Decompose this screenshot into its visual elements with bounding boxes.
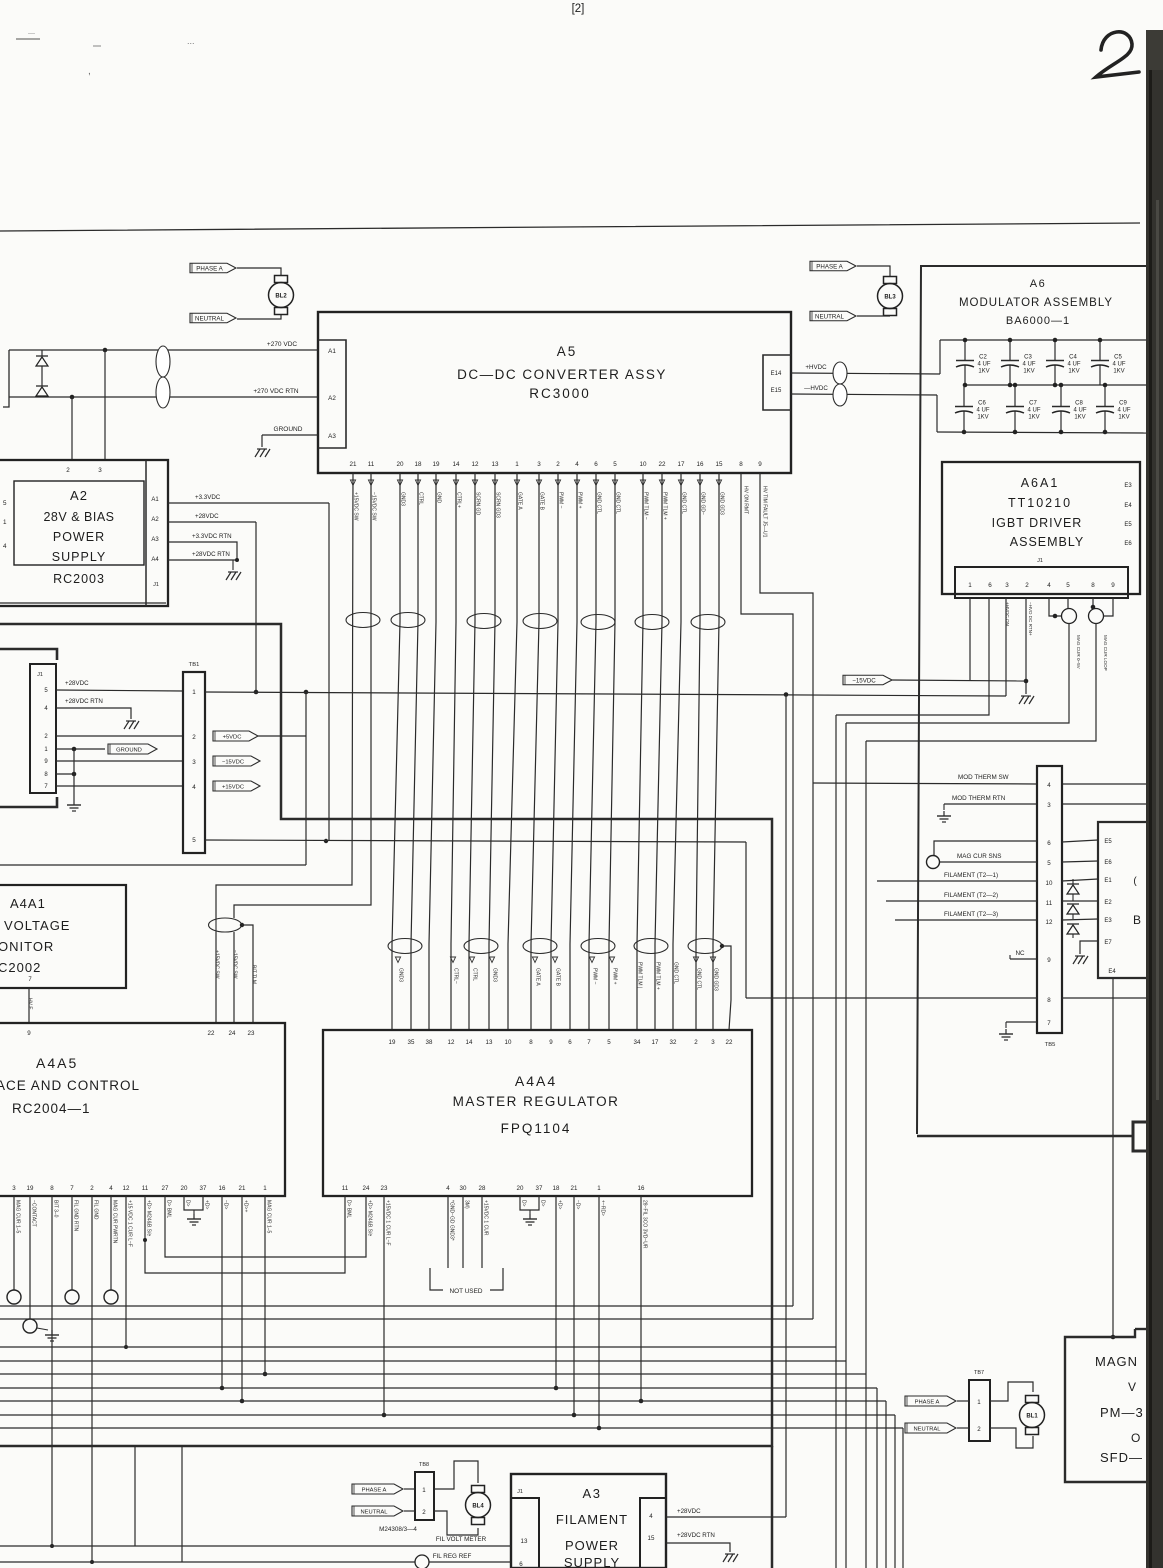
- wire +270 VDC: [9, 341, 318, 350]
- svg-text:PWM +: PWM +: [612, 968, 618, 985]
- svg-text:A2: A2: [70, 488, 88, 503]
- svg-text:+15 VDC 1 CUR L−F: +15 VDC 1 CUR L−F: [127, 1200, 133, 1247]
- svg-text:28: 28: [479, 1185, 486, 1192]
- svg-text:7: 7: [587, 1039, 591, 1046]
- wire J1-8 stub: [56, 772, 76, 777]
- svg-text:−15VDC: −15VDC: [852, 677, 876, 684]
- svg-text:23: 23: [381, 1185, 388, 1192]
- svg-text:+5VDC: +5VDC: [223, 734, 242, 740]
- svg-text:19: 19: [389, 1039, 396, 1046]
- label -HVDC RTN (rot): [1028, 602, 1033, 636]
- svg-text:4 UF: 4 UF: [976, 408, 989, 414]
- wire TB5-5 to E6: [1062, 861, 1098, 862]
- capacitor C9: [1096, 383, 1131, 435]
- svg-text:1KV: 1KV: [1023, 369, 1034, 375]
- svg-text:1KV: 1KV: [1074, 415, 1085, 421]
- svg-text:PHASE A: PHASE A: [362, 1487, 387, 1493]
- wire TB5-8 left: [746, 997, 1037, 999]
- svg-text:15: 15: [715, 461, 723, 468]
- connector circle MAG CUR: [927, 856, 940, 869]
- wire thick A6 bottom: [917, 1135, 1133, 1138]
- ground (E7): [1073, 956, 1088, 964]
- wire to A4A5 pin22: [215, 918, 217, 1023]
- svg-text:A6A1: A6A1: [1021, 476, 1060, 490]
- svg-text:7: 7: [70, 1185, 74, 1192]
- svg-text:16: 16: [219, 1185, 226, 1192]
- wire +5VDC tail: [258, 690, 308, 865]
- svg-text:,: ,: [88, 66, 91, 77]
- diode CR5: [1067, 924, 1079, 938]
- ground (J1-1): [67, 800, 81, 811]
- wire A4A4 pin16 drop: [639, 1196, 644, 1403]
- svg-text:1: 1: [515, 461, 519, 468]
- ground (A4A4 20/37): [523, 1214, 537, 1225]
- capacitor C2: [956, 338, 991, 388]
- svg-text:35: 35: [408, 1039, 415, 1046]
- svg-text:BA6000—1: BA6000—1: [1006, 315, 1070, 327]
- A4A4 top pins: [389, 1039, 733, 1046]
- svg-text:12: 12: [123, 1185, 130, 1192]
- svg-text:21: 21: [349, 461, 357, 468]
- svg-text:5: 5: [613, 461, 617, 468]
- label +HVDC ON (rot): [1005, 602, 1010, 626]
- svg-text:+28VDC: +28VDC: [195, 513, 219, 520]
- svg-text:A2: A2: [328, 395, 336, 402]
- wire A6A1 J1-1: [969, 598, 971, 681]
- svg-text:D>: D>: [540, 1200, 546, 1207]
- connector bracket magnetron: [1133, 1122, 1146, 1151]
- svg-text:14: 14: [466, 1039, 473, 1046]
- svg-text:+15VDC 1 CUR L−F: +15VDC 1 CUR L−F: [385, 1200, 391, 1246]
- diode CR3: [1067, 879, 1079, 901]
- svg-text:A3: A3: [328, 433, 336, 440]
- label MAG CUR 0-5V (rot): [1076, 635, 1081, 670]
- blower BL4: [466, 1486, 491, 1525]
- diode CR4: [1067, 904, 1079, 919]
- svg-text:30: 30: [460, 1185, 467, 1192]
- wire TB7-1 to BL1: [990, 1382, 1033, 1401]
- wire A4A5 pin8 drop: [50, 1196, 54, 1548]
- svg-text:5: 5: [3, 500, 7, 507]
- svg-text:E1: E1: [1104, 878, 1112, 884]
- wire A4A5 pin12 drop: [124, 1196, 128, 1349]
- wire GROUND to A5 A3: [262, 426, 318, 447]
- wire A4A4 pin21 drop: [572, 1196, 577, 1417]
- block A6 modulator assembly outline: [917, 266, 1146, 1134]
- blower BL2: [269, 276, 294, 315]
- svg-text:E2: E2: [1104, 900, 1112, 906]
- svg-text:PHASE A: PHASE A: [196, 265, 223, 272]
- svg-text:23: 23: [248, 1030, 255, 1037]
- wire TB5-5 MAG CUR SNS: [940, 853, 1037, 862]
- svg-text:C3: C3: [1024, 355, 1032, 361]
- A4A4 bottom labels: [346, 1200, 648, 1249]
- svg-text:MAG CUR PWRTN: MAG CUR PWRTN: [112, 1200, 118, 1244]
- wire e6 tap to pin22: [722, 946, 731, 1030]
- wire HVDC+ bus: [940, 340, 1146, 374]
- wire NEUTRAL TB8: [404, 1510, 415, 1512]
- svg-text:20: 20: [517, 1185, 524, 1192]
- svg-text:3: 3: [1005, 582, 1009, 589]
- wire +28VDC feed to A3: [785, 695, 787, 1518]
- svg-text:1: 1: [968, 582, 972, 589]
- page number [2]: [572, 3, 585, 15]
- connector J1 chassis bracket: [0, 649, 57, 807]
- svg-text:2: 2: [977, 1426, 981, 1433]
- wire A6A1 J1-2: [1024, 598, 1029, 694]
- svg-text:−15VDC: −15VDC: [222, 759, 244, 765]
- svg-text:C8: C8: [1075, 401, 1083, 407]
- svg-text:C2: C2: [979, 355, 987, 361]
- svg-text:TB7: TB7: [974, 1370, 984, 1376]
- flag +5VDC: [213, 731, 258, 741]
- svg-text:*GND−GD GND3*: *GND−GD GND3*: [449, 1200, 455, 1241]
- wire shield1 drop: [845, 723, 847, 1568]
- svg-text:NEUTRAL: NEUTRAL: [195, 315, 224, 322]
- svg-text:4: 4: [575, 461, 579, 468]
- wire J1-9: [56, 760, 183, 762]
- svg-text:+D>+: +D>+: [243, 1200, 249, 1212]
- twisted pair HVDC: [833, 362, 847, 406]
- svg-text:HV ON RMT: HV ON RMT: [743, 486, 749, 514]
- svg-text:TB5: TB5: [1045, 1042, 1056, 1048]
- svg-text:+28VDC RTN: +28VDC RTN: [65, 698, 103, 705]
- svg-text:TT10210: TT10210: [1008, 496, 1072, 510]
- svg-text:GND3: GND3: [398, 968, 404, 982]
- wire TB5-10 to E1: [1062, 879, 1098, 881]
- svg-text:20: 20: [181, 1185, 188, 1192]
- terminal block TB8: [415, 1462, 434, 1520]
- svg-text:1: 1: [3, 519, 7, 526]
- svg-text:1KV: 1KV: [978, 369, 989, 375]
- svg-text:4 UF: 4 UF: [977, 362, 990, 368]
- block A4A1 voltage monitor: [0, 885, 126, 988]
- wire A4A4 pins20/37 gnd: [520, 1196, 539, 1214]
- svg-text:B: B: [1133, 913, 1141, 927]
- svg-text:FPQ1104: FPQ1104: [501, 1121, 572, 1136]
- wire J1-7: [56, 785, 183, 787]
- svg-text:J1: J1: [517, 1489, 523, 1495]
- flag GROUND: [108, 744, 157, 754]
- svg-text:4 UF: 4 UF: [1027, 408, 1040, 414]
- shield ring J1-4/5: [1062, 609, 1077, 624]
- wire bus 1306: [0, 1305, 793, 1307]
- svg-text:+28VDC RTN: +28VDC RTN: [677, 1532, 715, 1539]
- svg-text:C4: C4: [1069, 355, 1077, 361]
- svg-text:NEUTRAL: NEUTRAL: [360, 1509, 388, 1515]
- svg-text:MAG CUR 1–5: MAG CUR 1–5: [266, 1200, 272, 1234]
- svg-text:GND GD3: GND GD3: [713, 968, 719, 991]
- wire TB5-11 FILAMENT T2-2: [886, 892, 1037, 901]
- svg-text:GND3: GND3: [492, 968, 498, 982]
- wire +28VDC drop: [254, 522, 259, 694]
- connector circle FIL REG: [415, 1555, 429, 1568]
- wire MOD THERM RTN: [944, 795, 1037, 810]
- wire -HVDC E15: [791, 385, 937, 395]
- svg-text:3: 3: [537, 461, 541, 468]
- connector A3 right strip: [640, 1498, 666, 1568]
- svg-text:NC: NC: [1015, 950, 1025, 957]
- svg-text:A3: A3: [583, 1486, 602, 1501]
- svg-text:+3.3VDC: +3.3VDC: [195, 494, 221, 501]
- svg-text:6: 6: [568, 1039, 572, 1046]
- label M24308/3-4: [379, 1526, 417, 1533]
- svg-text:13: 13: [521, 1538, 528, 1545]
- wire A5 pin8 route: [741, 473, 793, 1306]
- svg-text:A5: A5: [557, 344, 578, 359]
- svg-text:11: 11: [342, 1185, 349, 1192]
- wire TB8-1 to BL4: [434, 1461, 478, 1489]
- wire PHASE A TB7: [957, 1400, 969, 1402]
- flag NEUTRAL (TB8): [352, 1506, 403, 1516]
- svg-text:2: 2: [556, 461, 560, 468]
- svg-text:NOT USED: NOT USED: [450, 1288, 483, 1295]
- svg-text:16: 16: [638, 1185, 645, 1192]
- top border line: [0, 223, 1140, 231]
- svg-text:+D> M24&B.S/e: +D> M24&B.S/e: [367, 1200, 373, 1236]
- svg-text:E15: E15: [771, 388, 782, 394]
- svg-text:MAG CUR SNS: MAG CUR SNS: [957, 853, 1001, 860]
- svg-text:[2]: [2]: [572, 3, 585, 15]
- svg-text:+28VDC: +28VDC: [65, 680, 89, 687]
- svg-text:9: 9: [1111, 582, 1115, 589]
- capacitor C5: [1091, 338, 1126, 385]
- ground (A3 RTN): [723, 1554, 738, 1562]
- wire A6A1-6 drop: [835, 715, 837, 1568]
- svg-text:38: 38: [426, 1039, 433, 1046]
- wire A4A5 pin4 drop: [110, 1196, 112, 1290]
- svg-text:J1: J1: [153, 582, 159, 588]
- svg-text:28−FIL 3CO 3VD−UR: 28−FIL 3CO 3VD−UR: [642, 1200, 648, 1249]
- label MAG CUR LOOP (rot): [1103, 635, 1108, 671]
- svg-text:V: V: [1128, 1380, 1136, 1394]
- node RTN junction: [70, 395, 75, 400]
- wire A5 pin9 route: [760, 473, 813, 1319]
- svg-text:37: 37: [200, 1185, 207, 1192]
- svg-text:32: 32: [670, 1039, 677, 1046]
- ground (A6A1 J1-2): [1019, 696, 1034, 704]
- flag PHASE A (TB8): [352, 1484, 403, 1494]
- wire cap mid bus: [964, 384, 1146, 386]
- svg-text:A4: A4: [151, 557, 159, 563]
- wire A4A4 pin18 drop: [554, 1196, 559, 1390]
- wire bus 1401: [0, 1388, 886, 1568]
- svg-text:17: 17: [652, 1039, 659, 1046]
- block A2 power supply: [0, 460, 168, 606]
- wire TB5-8 right: [1062, 997, 1146, 999]
- wire A4A1 pin7: [28, 988, 30, 1023]
- wire stub y603: [0, 602, 166, 604]
- wire A6A1 J1-6: [836, 598, 989, 715]
- svg-text:GND CTL: GND CTL: [673, 962, 679, 984]
- wire RTN to A2 pin 2: [71, 397, 73, 460]
- svg-text:3: 3: [98, 467, 102, 474]
- svg-text:RC2003: RC2003: [53, 572, 105, 586]
- wire A4A5 pins20/37 gnd: [184, 1196, 203, 1214]
- svg-text:A6: A6: [1030, 278, 1046, 290]
- wire NEUTRAL to BL2: [237, 315, 281, 319]
- scan smudges top-left: [16, 30, 195, 77]
- wire -15VDC to J1-2: [892, 680, 1026, 681]
- wire A3 +28VDC: [666, 1508, 786, 1517]
- svg-text:D>: D>: [185, 1200, 191, 1207]
- svg-text:GND CTL: GND CTL: [696, 968, 702, 990]
- wire FIL VOLT METER: [0, 1536, 511, 1546]
- wire link pin11 A4A5-A4A4: [143, 1196, 345, 1273]
- svg-text:FIL GND: FIL GND: [93, 1200, 99, 1220]
- svg-text:−D>: −D>: [575, 1200, 581, 1210]
- svg-text:C2002: C2002: [0, 960, 41, 975]
- svg-text:18: 18: [553, 1185, 560, 1192]
- svg-text:3: 3: [192, 759, 196, 766]
- svg-text:16: 16: [696, 461, 704, 468]
- terminal block TB1: [183, 662, 205, 853]
- diode CR1: [36, 350, 48, 386]
- svg-text:−CONTACT: −CONTACT: [31, 1200, 37, 1227]
- wire A2 +28VDC RTN: [168, 551, 239, 562]
- wire TB5-12 FILAMENT T2-3: [895, 911, 1037, 920]
- connector circle pin7: [65, 1290, 79, 1304]
- block A4A4 master regulator: [323, 1030, 752, 1196]
- wire bus 1415: [0, 1401, 895, 1568]
- connector circle pin3: [7, 1290, 21, 1304]
- wire TB5-10 FILAMENT T2-1: [877, 872, 1037, 881]
- wire A4A5 pin7 drop: [71, 1196, 73, 1290]
- svg-text:−15VDC SW: −15VDC SW: [232, 950, 238, 979]
- svg-text:E3: E3: [1124, 483, 1132, 489]
- svg-text:J1: J1: [37, 672, 43, 678]
- svg-text:+3.3VDC RTN: +3.3VDC RTN: [192, 533, 232, 540]
- wire NEUTRAL to BL3: [857, 315, 890, 317]
- ground (A5 A3): [255, 449, 270, 457]
- wire +3.3VDC drop: [324, 503, 329, 843]
- wire A2 +3.3VDC: [168, 494, 329, 503]
- svg-text:8: 8: [1091, 582, 1095, 589]
- ground (J1-4): [124, 721, 139, 729]
- svg-text:C6: C6: [978, 401, 986, 407]
- wire PHASE A to BL3: [857, 266, 890, 276]
- flag PHASE A (BL2): [190, 263, 236, 273]
- svg-text:19: 19: [432, 461, 440, 468]
- svg-text:3: 3: [711, 1039, 715, 1046]
- svg-text:13: 13: [491, 461, 499, 468]
- wire J1-1 ground net: [56, 747, 105, 752]
- ground (A4A5 20/37): [187, 1214, 201, 1225]
- wire bus 1361: [0, 1360, 846, 1362]
- wire J1-5 +28VDC: [56, 680, 183, 691]
- svg-text:A3: A3: [151, 537, 159, 543]
- ground (pin19 tail): [45, 1330, 59, 1341]
- svg-text:NEUTRAL: NEUTRAL: [815, 313, 844, 320]
- svg-text:ASSEMBLY: ASSEMBLY: [1010, 535, 1084, 549]
- svg-text:9: 9: [1047, 957, 1051, 964]
- svg-text:1KV: 1KV: [977, 415, 988, 421]
- svg-text:+270 VDC RTN: +270 VDC RTN: [253, 388, 299, 395]
- svg-text:SUPPLY: SUPPLY: [52, 550, 106, 564]
- svg-text:ACE AND CONTROL: ACE AND CONTROL: [0, 1078, 140, 1093]
- flag PHASE A (TB7): [905, 1396, 956, 1406]
- svg-text:+D>: +D>: [557, 1200, 563, 1210]
- svg-text:GATE B: GATE B: [555, 968, 561, 987]
- svg-text:E5: E5: [1104, 839, 1112, 845]
- svg-text:FIL VOLT METER: FIL VOLT METER: [436, 1536, 487, 1543]
- svg-text:+D>: +D>: [204, 1200, 210, 1210]
- svg-text:2: 2: [1025, 582, 1029, 589]
- svg-text:A4A5: A4A5: [36, 1055, 78, 1071]
- wire +28VDC bus TB1-1: [205, 692, 1006, 697]
- svg-text:+270 VDC: +270 VDC: [267, 341, 297, 348]
- svg-text:8: 8: [50, 1185, 54, 1192]
- wire +HVDC E14: [791, 364, 940, 374]
- wire bus 1319: [0, 1318, 813, 1320]
- wire NEUTRAL TB7: [957, 1427, 969, 1429]
- svg-text:E3: E3: [1104, 918, 1112, 924]
- svg-text:MOD THERM RTN: MOD THERM RTN: [952, 795, 1006, 802]
- svg-text:PHASE A: PHASE A: [816, 263, 843, 270]
- shield pairs row 1: [346, 613, 725, 630]
- wire J1-5 into ring: [1067, 598, 1069, 609]
- wire E7 ground: [1080, 941, 1098, 954]
- svg-text:PWM −: PWM −: [592, 968, 598, 985]
- wire +270 VDC RTN: [9, 388, 318, 397]
- labels 22/24/23 (rot): [214, 950, 257, 984]
- capacitor C4: [1046, 338, 1081, 388]
- harness labels row 2: [395, 957, 718, 991]
- harness wires A5 to A4A4: [392, 473, 719, 1030]
- svg-text:TB8: TB8: [419, 1462, 429, 1468]
- svg-text:+15VDC: +15VDC: [222, 784, 244, 790]
- wire shield2 drop: [865, 741, 867, 1568]
- svg-text:MAG CUR 0–5V: MAG CUR 0–5V: [1076, 635, 1081, 670]
- svg-text:20: 20: [396, 461, 404, 468]
- svg-text:4 UF: 4 UF: [1117, 408, 1130, 414]
- svg-text:11: 11: [142, 1185, 149, 1192]
- svg-text:10: 10: [1046, 880, 1053, 887]
- svg-text:+28VDC: +28VDC: [677, 1508, 701, 1515]
- svg-text:E5: E5: [1124, 522, 1132, 528]
- wire TB5-6: [934, 841, 1037, 855]
- svg-text:GATE A: GATE A: [535, 968, 541, 986]
- svg-text:9: 9: [549, 1039, 553, 1046]
- svg-text:PWM TLM |: PWM TLM |: [637, 962, 643, 988]
- twisted pair +270 feeders: [156, 346, 170, 408]
- svg-text:MOD THERM SW: MOD THERM SW: [958, 774, 1009, 781]
- svg-text:8: 8: [1047, 997, 1051, 1004]
- svg-text:28V & BIAS: 28V & BIAS: [43, 510, 114, 524]
- svg-text:4 UF: 4 UF: [1022, 362, 1035, 368]
- svg-text:1: 1: [977, 1399, 981, 1406]
- svg-text:MASTER REGULATOR: MASTER REGULATOR: [453, 1094, 620, 1109]
- svg-text:6: 6: [1047, 840, 1051, 847]
- shield pairs row 2: [388, 939, 724, 954]
- svg-text:A4A1: A4A1: [10, 896, 46, 911]
- handwritten sheet number 2: [1096, 32, 1139, 77]
- wires NOT USED pins: [448, 1196, 482, 1268]
- svg-text:4: 4: [1047, 782, 1051, 789]
- wire MOD THERM RTN right: [1062, 803, 1146, 805]
- wire A6A1 J1-3: [1005, 598, 1007, 696]
- svg-text:6: 6: [988, 582, 992, 589]
- svg-text:ONITOR: ONITOR: [0, 939, 54, 954]
- svg-text:17: 17: [677, 461, 685, 468]
- svg-text:6: 6: [594, 461, 598, 468]
- wire thick bus taps: [135, 1446, 182, 1562]
- svg-text:E6: E6: [1104, 860, 1112, 866]
- svg-text:A1: A1: [151, 497, 159, 503]
- label pin9 (rot): [762, 486, 768, 538]
- wire J1-4 +28VDC RTN: [56, 698, 131, 719]
- svg-text:4 UF: 4 UF: [1073, 408, 1086, 414]
